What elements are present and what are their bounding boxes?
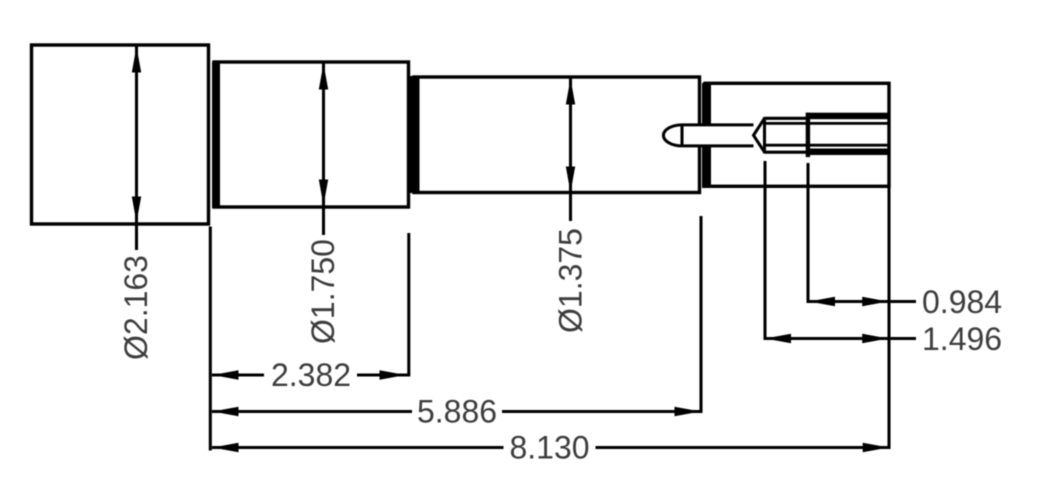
svg-text:1.496: 1.496 <box>922 321 1002 357</box>
svg-text:2.382: 2.382 <box>271 357 351 393</box>
svg-text:0.984: 0.984 <box>922 284 1002 320</box>
svg-text:Ø1.750: Ø1.750 <box>305 239 341 344</box>
svg-text:Ø1.375: Ø1.375 <box>553 228 589 333</box>
svg-text:8.130: 8.130 <box>509 430 589 466</box>
svg-text:Ø2.163: Ø2.163 <box>118 255 154 360</box>
svg-text:5.886: 5.886 <box>417 394 497 430</box>
